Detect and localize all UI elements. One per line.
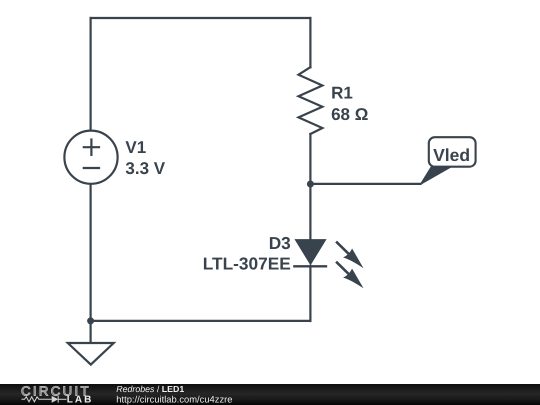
logo resistor-diode icon: [22, 396, 67, 403]
svg-text:V1: V1: [125, 138, 146, 157]
resistor R1 zigzag body: [299, 67, 323, 134]
wire left vertical from top to V1: [89, 18, 91, 131]
svg-text:D3: D3: [269, 233, 291, 253]
wire top from V1 to R1: [91, 17, 311, 19]
svg-text:Vled: Vled: [433, 145, 470, 165]
LED arrow 2: [336, 262, 363, 289]
svg-text:R1: R1: [331, 84, 353, 103]
svg-text:LTL-307EE: LTL-307EE: [203, 254, 291, 274]
node flag Vled tail: [420, 166, 450, 185]
wire node Vled horizontal: [310, 183, 420, 185]
svg-text:http://circuitlab.com/cu4zzre: http://circuitlab.com/cu4zzre: [116, 393, 232, 404]
node junction dot at Vled branch: [307, 181, 314, 188]
label D3: [203, 233, 291, 274]
voltage source V1: [64, 131, 117, 184]
LED D3 cathode bar: [293, 265, 327, 267]
ground symbol: [68, 343, 114, 365]
svg-text:3.3 V: 3.3 V: [125, 159, 165, 178]
LED arrow 1: [336, 242, 363, 269]
wire below V1 to ground: [89, 184, 91, 343]
svg-text:68 Ω: 68 Ω: [331, 105, 368, 124]
wire from R1 to LED D3: [309, 134, 311, 240]
wire right vertical from top to resistor R1: [309, 18, 311, 67]
logo diode triangle: [52, 396, 59, 403]
node junction dot at ground branch: [87, 317, 94, 324]
svg-text:LAB: LAB: [67, 395, 94, 405]
wire bottom from ground node to LED branch: [91, 320, 311, 322]
logo CIRCUIT text: [21, 383, 233, 405]
LED D3 triangle: [296, 240, 325, 263]
node flag Vled box: [429, 137, 476, 167]
wire below LED to bottom: [309, 266, 311, 321]
footer bar: [0, 384, 540, 405]
node flag Vled text: [433, 145, 470, 165]
